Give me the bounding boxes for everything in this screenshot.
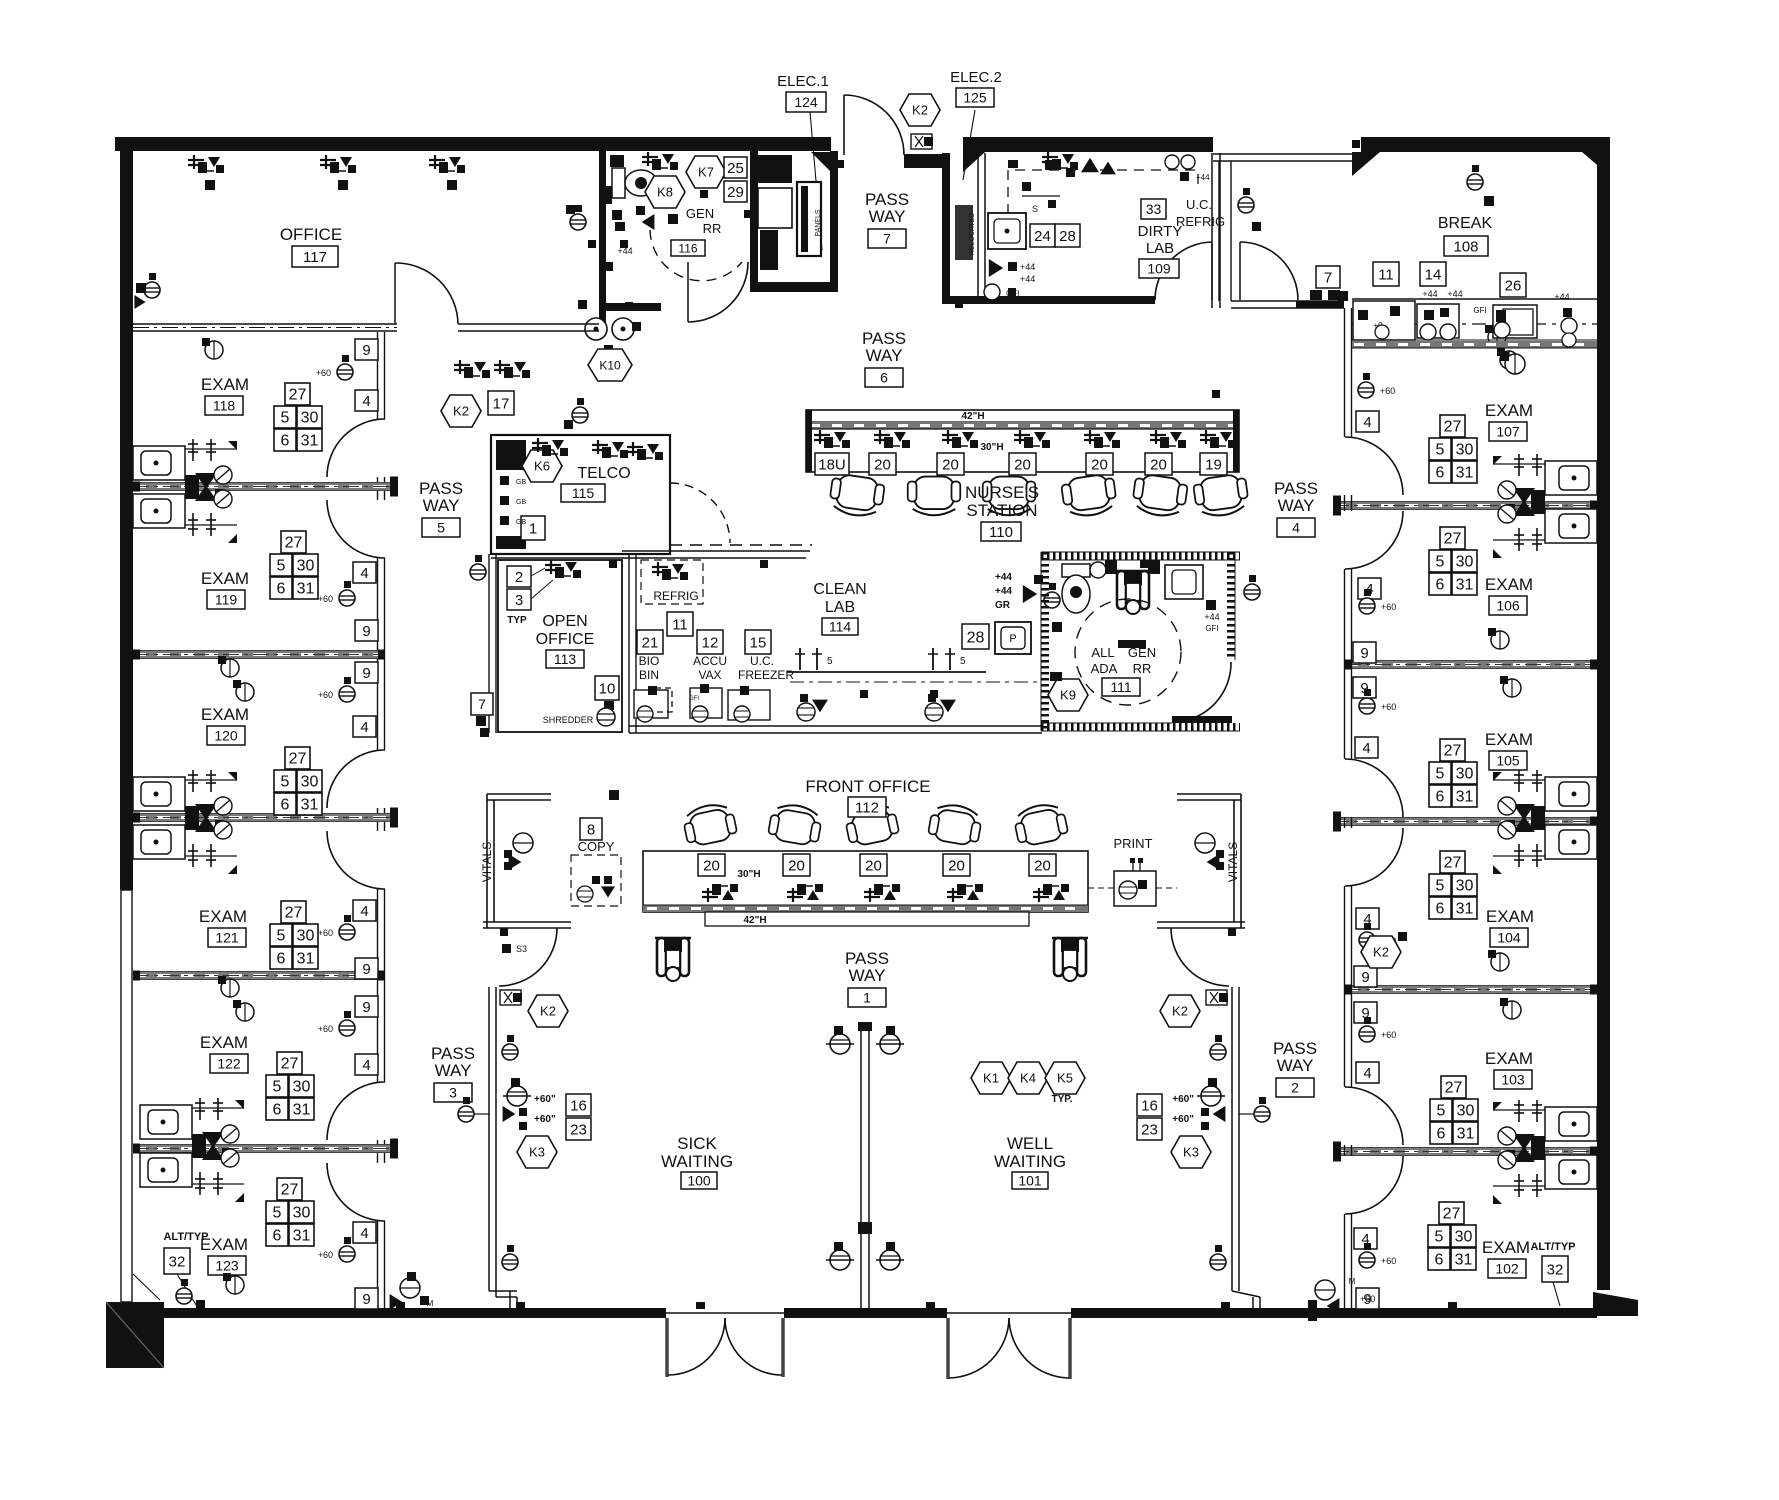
wall dirty-lab left bbox=[977, 153, 979, 299]
wall outer left thin bbox=[121, 890, 132, 1302]
ws nurse 2 bbox=[874, 430, 910, 448]
svg-text:+44: +44 bbox=[1020, 262, 1035, 272]
svg-text:4: 4 bbox=[1292, 520, 1300, 536]
svg-text:VITALS: VITALS bbox=[1226, 842, 1240, 882]
chair front x955 bbox=[927, 802, 983, 847]
svg-text:K7: K7 bbox=[698, 165, 714, 180]
thermo left corridor y932 bbox=[339, 924, 355, 940]
wall office bottom left bbox=[133, 323, 397, 325]
ws office 1 bbox=[188, 155, 224, 173]
mark at 930,690 bbox=[930, 690, 938, 698]
svg-text:28: 28 bbox=[1059, 228, 1076, 245]
corner element bottom-right bbox=[1593, 1292, 1638, 1316]
svg-text:EXAM: EXAM bbox=[1485, 575, 1533, 594]
wall outer bottom seg1 bbox=[164, 1308, 666, 1318]
tag 19 nurse x1200 bbox=[1200, 453, 1227, 475]
svg-text:23: 23 bbox=[1141, 1121, 1158, 1138]
separator wall left y654 bbox=[133, 651, 385, 658]
svg-text:ALL: ALL bbox=[1091, 645, 1114, 660]
tag 12 bbox=[697, 630, 723, 654]
print fixture bbox=[1114, 871, 1156, 906]
hexagon K1 bbox=[971, 1062, 1011, 1094]
separator wall right y821 bbox=[1333, 818, 1597, 825]
svg-text:GFI: GFI bbox=[1473, 306, 1486, 315]
ws front x700 bbox=[702, 884, 738, 902]
marks left corridor bottom bbox=[502, 944, 511, 953]
svg-text:+60: +60 bbox=[318, 928, 333, 938]
tag 16 sick bbox=[566, 1094, 591, 1116]
wall alcove top bbox=[622, 550, 810, 552]
svg-text:K3: K3 bbox=[1183, 1145, 1199, 1160]
thermo left corridor y598 bbox=[339, 590, 355, 606]
svg-text:20: 20 bbox=[942, 456, 959, 473]
mark at 955,300 bbox=[955, 300, 963, 308]
hexagon K3 sick bbox=[517, 1136, 557, 1168]
thermo exam-room left y692 bbox=[236, 683, 254, 701]
tag 20 nurse x937 bbox=[937, 453, 964, 475]
svg-text:EXAM: EXAM bbox=[200, 1033, 248, 1052]
svg-text:20: 20 bbox=[948, 857, 965, 874]
clean lab counter bbox=[787, 671, 986, 673]
svg-text:WAY: WAY bbox=[866, 346, 903, 365]
ws office 3 bbox=[429, 155, 465, 173]
tag 20 nurse x1009 bbox=[1009, 453, 1036, 475]
door dirty lab bbox=[1155, 242, 1212, 300]
svg-text:EXAM: EXAM bbox=[199, 907, 247, 926]
tag 20 front x943 bbox=[943, 854, 970, 876]
hexagon K7 bbox=[686, 156, 726, 188]
hexagon K8 bbox=[645, 176, 685, 208]
tag 28 clean lab bbox=[962, 624, 989, 649]
tag 24 bbox=[1030, 224, 1055, 247]
door exam106 bbox=[1345, 511, 1403, 569]
tag 7 passway bbox=[471, 693, 493, 715]
entrance door arc left-2 bbox=[725, 1318, 782, 1375]
hexagon K2 right corridor bbox=[1361, 936, 1401, 968]
svg-text:4: 4 bbox=[360, 565, 368, 582]
tag 23 well bbox=[1137, 1118, 1162, 1140]
svg-text:100: 100 bbox=[687, 1173, 711, 1189]
thermo office right bbox=[570, 214, 586, 230]
door exam107 bbox=[1345, 437, 1403, 495]
wall corner hatch A bbox=[1352, 152, 1380, 176]
svg-text:3: 3 bbox=[449, 1085, 457, 1101]
svg-text:+44: +44 bbox=[1554, 292, 1569, 302]
svg-text:K6: K6 bbox=[534, 459, 550, 474]
door arc ELEC.1 bbox=[844, 95, 904, 155]
svg-text:104: 104 bbox=[1497, 930, 1521, 946]
ws front x862 bbox=[864, 884, 900, 902]
separator wall left y1148 bbox=[133, 1145, 397, 1152]
thermo exam-room right y360 bbox=[1500, 351, 1518, 369]
svg-text:9: 9 bbox=[1360, 645, 1368, 662]
tag 3 bbox=[507, 589, 531, 610]
svg-text:113: 113 bbox=[554, 651, 577, 667]
svg-text:26: 26 bbox=[1505, 277, 1522, 294]
svg-text:111: 111 bbox=[1110, 679, 1131, 695]
hexagon K2 passway5 bbox=[441, 395, 481, 427]
svg-text:ALT/TYP: ALT/TYP bbox=[163, 1231, 208, 1243]
equipment exam105-104 bbox=[1493, 770, 1597, 874]
svg-text:42"H: 42"H bbox=[961, 411, 984, 422]
svg-text:+44: +44 bbox=[1204, 612, 1219, 622]
triangle sick bbox=[503, 1106, 516, 1122]
tag 4 right corridor y1228 bbox=[1354, 1228, 1377, 1249]
svg-text:118: 118 bbox=[213, 398, 236, 414]
svg-text:120: 120 bbox=[214, 728, 238, 744]
bracket dashed bbox=[655, 688, 672, 712]
svg-text:FRONT OFFICE: FRONT OFFICE bbox=[805, 777, 930, 796]
sink dirty lab bbox=[988, 213, 1026, 249]
svg-text:COPY: COPY bbox=[578, 839, 615, 854]
tag 9 right corridor y677 bbox=[1353, 677, 1376, 698]
svg-text:117: 117 bbox=[303, 249, 327, 266]
separator wall right y1151 bbox=[1333, 1148, 1597, 1155]
svg-text:+60: +60 bbox=[1380, 386, 1395, 396]
ws front x945 bbox=[947, 884, 983, 902]
svg-text:+60": +60" bbox=[1172, 1094, 1194, 1105]
panel ELEC.1 extra bbox=[760, 230, 778, 270]
ws refrig bbox=[652, 562, 688, 580]
svg-text:+60: +60 bbox=[318, 1024, 333, 1034]
recep divider bot-left bbox=[830, 1250, 850, 1270]
wall dirty-lab bottom bbox=[942, 296, 1155, 304]
svg-text:EXAM: EXAM bbox=[201, 569, 249, 588]
svg-text:U.C.: U.C. bbox=[750, 654, 774, 668]
svg-text:WELL: WELL bbox=[1007, 1134, 1053, 1153]
door exam122 bbox=[327, 1082, 385, 1140]
thermo exam123 bottom bbox=[400, 1278, 420, 1298]
svg-text:K9: K9 bbox=[1060, 688, 1076, 703]
mark at 609,560 bbox=[609, 560, 617, 568]
svg-text:103: 103 bbox=[1501, 1072, 1525, 1088]
recep divider top-left bbox=[830, 1034, 850, 1054]
marks ADA left bbox=[1052, 622, 1062, 632]
svg-text:K1: K1 bbox=[983, 1071, 999, 1086]
svg-text:20: 20 bbox=[788, 857, 805, 874]
dashed arc GEN RR bbox=[650, 230, 742, 281]
tag 20 nurse x1086 bbox=[1086, 453, 1113, 475]
wall open-office left bbox=[488, 554, 490, 733]
svg-text:1: 1 bbox=[529, 520, 537, 537]
svg-text:K4: K4 bbox=[1020, 1071, 1036, 1086]
svg-text:ADA: ADA bbox=[1091, 661, 1118, 676]
thermo exam-room left y988 bbox=[221, 979, 239, 997]
mark at 1228,928 bbox=[1228, 928, 1236, 936]
svg-text:121: 121 bbox=[215, 930, 239, 946]
wall under TELCO bbox=[491, 557, 670, 559]
break room door black piece bbox=[1338, 291, 1348, 301]
svg-text:S: S bbox=[1032, 204, 1038, 214]
svg-text:GB: GB bbox=[516, 519, 526, 526]
tag 9 left corridor y958 bbox=[355, 958, 378, 979]
wall outer top-left segment bbox=[115, 137, 831, 151]
svg-text:+60: +60 bbox=[1360, 1294, 1375, 1304]
thermo right corridor y1260 bbox=[1359, 1252, 1375, 1268]
thermo passway5 bbox=[470, 564, 486, 580]
svg-text:RR: RR bbox=[1133, 661, 1152, 676]
door exam123 bbox=[327, 1163, 385, 1221]
svg-text:K5: K5 bbox=[1057, 1071, 1073, 1086]
chair nurse x1160 bbox=[1131, 473, 1188, 519]
mark at 1212,390 bbox=[1212, 390, 1220, 398]
svg-text:EXAM: EXAM bbox=[1482, 1238, 1530, 1257]
tag 20 nurse x869 bbox=[869, 453, 896, 475]
tag 4 left corridor y1222 bbox=[353, 1222, 376, 1243]
tag 28 dirty bbox=[1055, 224, 1080, 247]
nurse counter bbox=[806, 410, 1239, 472]
tag 21 bbox=[637, 630, 663, 654]
svg-text:14: 14 bbox=[1425, 266, 1442, 283]
break dashed centerline bbox=[1352, 323, 1597, 325]
breaker tag cluster at 266,1052 bbox=[266, 1052, 314, 1120]
TELCO wall symbols bbox=[500, 476, 509, 485]
panel ELEC.1 rect bbox=[797, 182, 821, 256]
svg-text:EXAM: EXAM bbox=[201, 705, 249, 724]
tag 9 right corridor y1002 bbox=[1354, 1002, 1377, 1023]
wall GEN RR bottom bbox=[599, 303, 661, 311]
svg-text:WAY: WAY bbox=[869, 207, 906, 226]
thermo left corridor y694 bbox=[339, 686, 355, 702]
chair front x1041 bbox=[1012, 801, 1069, 848]
marks GEN RR bbox=[612, 210, 622, 220]
svg-text:24: 24 bbox=[1034, 228, 1051, 245]
wall ELEC.1 bottom bbox=[750, 282, 838, 292]
ws passway5 a bbox=[454, 360, 490, 378]
svg-text:K10: K10 bbox=[599, 358, 621, 372]
svg-text:9: 9 bbox=[362, 623, 370, 640]
tick bottom wall x1452 bbox=[1448, 1302, 1457, 1309]
tag 4 left corridor y716 bbox=[353, 716, 376, 737]
svg-text:28: 28 bbox=[967, 629, 985, 646]
tick bottom wall x700 bbox=[696, 1302, 705, 1309]
tag 20 front x1029 bbox=[1029, 854, 1056, 876]
svg-text:WAY: WAY bbox=[435, 1061, 472, 1080]
break sink bbox=[1493, 305, 1537, 338]
svg-text:119: 119 bbox=[215, 592, 238, 608]
entrance door arc left-1 bbox=[668, 1318, 725, 1375]
thermo exam-room right y688 bbox=[1503, 679, 1521, 697]
wall outer top over dirty lab bbox=[963, 137, 1213, 152]
TELCO black corner bbox=[496, 440, 526, 470]
svg-text:LAB: LAB bbox=[825, 599, 855, 616]
wall corner hatch C bbox=[963, 152, 985, 172]
door exam118 bbox=[327, 419, 385, 477]
TELCO black sill bbox=[496, 536, 526, 549]
svg-text:114: 114 bbox=[829, 619, 852, 635]
tag 20 front x698 bbox=[698, 854, 725, 876]
svg-text:K2: K2 bbox=[1172, 1004, 1188, 1019]
thermo bottom-left bbox=[176, 1288, 192, 1304]
ws office 2 bbox=[320, 155, 356, 173]
leader ELEC.1 bbox=[810, 112, 822, 250]
hexagon K9 bbox=[1048, 679, 1088, 711]
ws nurse 3 bbox=[942, 430, 978, 448]
svg-text:9: 9 bbox=[362, 342, 370, 359]
svg-text:4: 4 bbox=[1363, 414, 1371, 431]
wall outer bottom seg2 bbox=[784, 1308, 947, 1318]
svg-text:+60: +60 bbox=[1381, 702, 1396, 712]
svg-text:PANELS: PANELS bbox=[815, 209, 822, 236]
recep divider bot-right bbox=[880, 1250, 900, 1270]
breaker tag cluster at 1429,851 bbox=[1429, 851, 1477, 919]
svg-text:WAY: WAY bbox=[849, 966, 886, 985]
svg-text:+44: +44 bbox=[1447, 289, 1462, 299]
svg-text:BIN: BIN bbox=[639, 668, 659, 682]
svg-text:+60": +60" bbox=[534, 1114, 556, 1125]
ws dirty lab bbox=[1042, 152, 1078, 170]
tag 23 sick bbox=[566, 1118, 591, 1140]
wall outer bottom seg3 bbox=[1071, 1308, 1597, 1318]
chair nurse x1089 bbox=[1061, 473, 1118, 519]
mark at 860,690 bbox=[860, 690, 868, 698]
marks office left wall bbox=[136, 283, 146, 293]
svg-text:20: 20 bbox=[1150, 456, 1167, 473]
relocated panel ELEC.2 bbox=[955, 205, 973, 260]
svg-text:116: 116 bbox=[678, 241, 697, 255]
svg-text:FREEZER: FREEZER bbox=[738, 668, 794, 682]
separator wall left y975 bbox=[133, 972, 385, 979]
svg-text:20: 20 bbox=[874, 456, 891, 473]
wall piece at ELEC.1 bbox=[904, 154, 949, 168]
thermo right of dirtylab bbox=[1238, 197, 1254, 213]
breaker tag cluster at 266,1178 bbox=[266, 1178, 314, 1246]
svg-text:TYP: TYP bbox=[507, 615, 527, 626]
svg-text:ACCU: ACCU bbox=[693, 654, 727, 668]
svg-text:WAY: WAY bbox=[423, 496, 460, 515]
svg-text:101: 101 bbox=[1018, 1173, 1042, 1189]
svg-text:15: 15 bbox=[750, 634, 767, 651]
dashed circle ADA RR bbox=[1075, 599, 1181, 705]
circle sick bbox=[507, 1086, 527, 1106]
mark at 500,928 bbox=[500, 928, 508, 936]
triangle well bbox=[1213, 1106, 1226, 1122]
separator wall right y505 bbox=[1333, 502, 1597, 509]
ws passway5 b bbox=[494, 360, 530, 378]
front-office bracket left bbox=[487, 793, 551, 795]
wall outer left thick bbox=[120, 137, 133, 890]
svg-text:+60": +60" bbox=[1172, 1114, 1194, 1125]
svg-text:REFRIG: REFRIG bbox=[1176, 214, 1225, 229]
svg-text:4: 4 bbox=[360, 1225, 368, 1242]
thermo office left bbox=[144, 282, 160, 298]
equipment exam118-119 bbox=[133, 439, 237, 543]
tag 29 bbox=[724, 181, 747, 202]
door TELCO dashed arc bbox=[670, 483, 730, 543]
svg-text:K2: K2 bbox=[540, 1004, 556, 1019]
freezer fixture bbox=[728, 690, 770, 720]
wheelchair well bbox=[1052, 938, 1088, 981]
door ADA RR bbox=[1174, 662, 1231, 722]
door exam103 bbox=[1345, 1087, 1403, 1145]
svg-text:EXAM: EXAM bbox=[1486, 907, 1534, 926]
break fridge bbox=[1353, 301, 1415, 340]
wheelchair ADA RR bbox=[1115, 571, 1151, 614]
svg-text:+60: +60 bbox=[1381, 602, 1396, 612]
S tag right wall bbox=[1206, 990, 1228, 1005]
svg-text:124: 124 bbox=[794, 94, 818, 110]
door leaf ELEC.1 bbox=[843, 95, 845, 155]
svg-text:20: 20 bbox=[1091, 456, 1108, 473]
svg-text:1: 1 bbox=[863, 990, 871, 1006]
svg-text:RR: RR bbox=[703, 221, 722, 236]
wall ELEC.2 left bbox=[942, 153, 950, 303]
accu fixture bbox=[690, 688, 722, 718]
wall corner hatch B bbox=[1582, 152, 1610, 176]
thermo exam-room right y1010 bbox=[1503, 1001, 1521, 1019]
bottom threshold line A bbox=[666, 1312, 784, 1314]
room open-office box bbox=[498, 560, 622, 732]
svg-text:10: 10 bbox=[599, 680, 616, 697]
svg-text:K2: K2 bbox=[1373, 945, 1389, 960]
tag 11 break bbox=[1373, 262, 1399, 286]
thermo well top bbox=[1210, 1044, 1226, 1060]
thermo exam-room left y350 bbox=[205, 341, 223, 359]
svg-text:9: 9 bbox=[1361, 969, 1369, 986]
wall outer top thin segment bbox=[1213, 153, 1361, 155]
tag 4 left corridor y562 bbox=[353, 562, 376, 583]
svg-text:109: 109 bbox=[1147, 261, 1171, 277]
breaker tag cluster at 270,531 bbox=[270, 531, 318, 599]
svg-text:+44: +44 bbox=[1020, 274, 1035, 284]
tag 20 nurse x1145 bbox=[1145, 453, 1172, 475]
svg-text:30"H: 30"H bbox=[980, 442, 1003, 453]
thermo sick top bbox=[502, 1044, 518, 1060]
svg-text:9: 9 bbox=[362, 961, 370, 978]
thermo left corridor y1028 bbox=[339, 1020, 355, 1036]
hexagon K10 bbox=[588, 349, 632, 381]
svg-text:33: 33 bbox=[1146, 201, 1162, 217]
tag 4 right corridor y1062 bbox=[1356, 1062, 1379, 1083]
sink ADA RR bbox=[1165, 565, 1203, 599]
svg-text:SHREDDER: SHREDDER bbox=[543, 715, 594, 725]
clean lab GFI A bbox=[812, 700, 828, 713]
svg-text:GEN: GEN bbox=[686, 206, 714, 221]
ws nurse 4 bbox=[1014, 430, 1050, 448]
tag 7 break bbox=[1316, 266, 1340, 288]
svg-text:GB: GB bbox=[516, 479, 526, 486]
tag 4 right corridor y411 bbox=[1356, 411, 1379, 432]
svg-text:STATION: STATION bbox=[966, 501, 1037, 520]
svg-text:TELCO: TELCO bbox=[577, 465, 630, 482]
break below thermo bbox=[1505, 354, 1525, 374]
toilet ADA RR bbox=[1062, 564, 1090, 577]
chair front x710 bbox=[681, 801, 738, 848]
svg-text:9: 9 bbox=[362, 999, 370, 1016]
break counter top bbox=[1352, 298, 1597, 300]
svg-text:5: 5 bbox=[960, 656, 966, 667]
svg-text:S3: S3 bbox=[516, 944, 527, 954]
hexagon K5 bbox=[1045, 1062, 1085, 1094]
wall alcove left bbox=[628, 553, 630, 733]
svg-text:+44: +44 bbox=[995, 572, 1012, 583]
svg-text:EXAM: EXAM bbox=[201, 375, 249, 394]
thermo well bottom bbox=[1210, 1254, 1226, 1270]
tag 4 right corridor y737 bbox=[1355, 737, 1378, 758]
thermo right of wall bbox=[1254, 1106, 1270, 1122]
separator wall left y817 bbox=[133, 814, 397, 821]
thermo exam-room right y962 bbox=[1491, 953, 1509, 971]
chair front x872 bbox=[843, 801, 900, 848]
svg-text:125: 125 bbox=[963, 90, 987, 106]
tag 15 bbox=[745, 630, 771, 654]
tag 9 right corridor y966 bbox=[1354, 966, 1377, 987]
wall GEN RR left bbox=[599, 151, 606, 331]
svg-text:2: 2 bbox=[1291, 1080, 1299, 1096]
wall corridor right-wing bbox=[1344, 308, 1346, 437]
tag 9 left corridor y996 bbox=[355, 996, 378, 1017]
svg-text:WAY: WAY bbox=[1277, 1056, 1314, 1075]
